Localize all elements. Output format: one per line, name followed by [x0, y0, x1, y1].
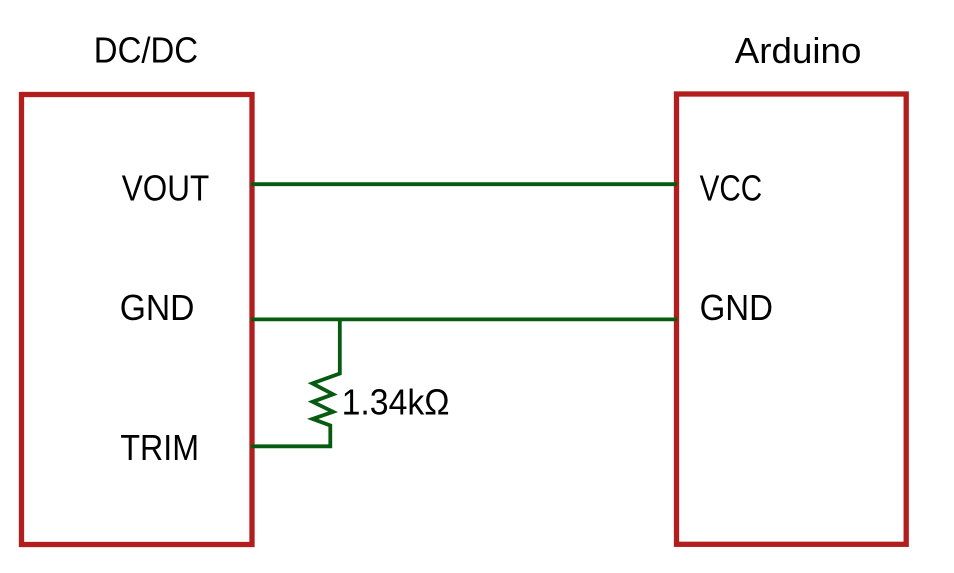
wire VOUT to VCC — [251, 182, 677, 186]
svg-text:DC/DC: DC/DC — [94, 30, 198, 71]
svg-text:GND: GND — [120, 287, 195, 328]
wire GND to GND — [251, 317, 677, 321]
block U1 DC/DC converter box — [22, 95, 253, 545]
svg-text:1.34kΩ: 1.34kΩ — [342, 381, 450, 422]
svg-text:GND: GND — [700, 287, 773, 328]
svg-text:VCC: VCC — [700, 167, 763, 208]
svg-text:VOUT: VOUT — [122, 168, 209, 209]
resistor R1 with branch wires from GND net to TRIM pin — [251, 319, 340, 446]
svg-text:TRIM: TRIM — [120, 427, 199, 468]
block U2 Arduino box — [677, 94, 907, 544]
svg-text:Arduino: Arduino — [735, 30, 862, 71]
